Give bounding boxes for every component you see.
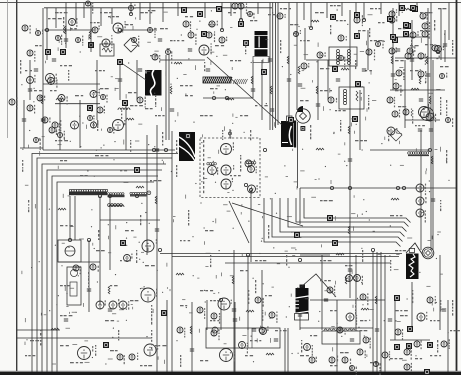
value label T108 (420, 12, 432, 13)
wire W60 (162, 3, 164, 23)
section label square L20 (392, 37, 398, 43)
tube V38 (124, 254, 133, 262)
resistor R117 (419, 76, 421, 84)
value label T211 (430, 320, 440, 321)
wire W14 (277, 3, 279, 126)
value label T212 (450, 330, 460, 331)
value label T173 (415, 125, 425, 126)
section label square L8 (197, 11, 203, 17)
value label T160 (290, 24, 298, 25)
wire diagonal D3 peak (301, 274, 336, 297)
value label T179 (25, 70, 32, 71)
value label (vertical) T59 (434, 20, 435, 30)
value label (vertical) T58 (411, 40, 412, 49)
section label square L34 (103, 342, 109, 348)
tube V83 (410, 31, 419, 38)
capacitor C212 (52, 59, 56, 61)
section label square L37 (327, 215, 333, 221)
terminal node N1 (152, 148, 155, 151)
wire W80 (125, 100, 127, 150)
capacitor C210 (158, 39, 162, 41)
value label (vertical) T19 (412, 110, 413, 124)
resistor R8 (336, 253, 344, 255)
resistor R107 (155, 196, 157, 204)
tube V30 (416, 184, 426, 195)
section label square L19 (405, 23, 411, 29)
value label (vertical) T47 (162, 132, 163, 146)
section label square L30 (394, 295, 400, 301)
wire WH6 (160, 59, 205, 61)
width coil L4 (hatched) (203, 77, 232, 83)
wire W86 (355, 255, 357, 330)
value label T141 (70, 362, 83, 363)
coil L3 (winding bar) (130, 192, 147, 196)
tube V88 (396, 69, 404, 80)
tube V9 (238, 3, 247, 14)
value label (vertical) T17 (446, 150, 447, 163)
value label (vertical) T33 (452, 300, 453, 316)
section label square L36 (406, 343, 412, 349)
value label T156 (208, 24, 216, 25)
tube V228 (88, 115, 95, 126)
value label T217 (110, 350, 118, 351)
value label T222 (415, 358, 422, 359)
value label T199 (110, 285, 118, 286)
tube V216 (337, 327, 346, 335)
tube V60 (346, 313, 357, 325)
capacitor C31 (22, 119, 26, 121)
tube V51 (304, 344, 313, 356)
value label (vertical) T27 (188, 210, 189, 226)
value label T132 (60, 315, 72, 316)
wire W35 (109, 196, 111, 270)
terminal node N15 (135, 194, 138, 197)
terminal node N2 (164, 148, 167, 151)
wire W50 (220, 300, 222, 330)
bus wire BR5 (296, 198, 409, 227)
wire W36 (99, 196, 101, 305)
value label T142 (140, 365, 152, 366)
value label (vertical) T60 (355, 60, 356, 69)
value label T180 (50, 90, 57, 91)
terminal node N17 (87, 238, 90, 241)
coil L2 (winding bar) (107, 193, 124, 198)
terminal node N7 (330, 186, 333, 189)
bus wire BR4 (288, 198, 407, 232)
value label T131 (395, 310, 408, 311)
wire WH8 (370, 149, 430, 151)
flyback transformer T2 middle (255, 36, 268, 48)
capacitor C201 (396, 49, 400, 51)
wire W31 (310, 3, 312, 29)
value label T168 (395, 60, 404, 61)
value label (vertical) T4 (151, 305, 152, 325)
page border left (16, 0, 18, 375)
capacitor C5 (170, 109, 174, 111)
value label (vertical) T18 (440, 200, 441, 211)
waveform blob / coil T6 (406, 248, 419, 279)
tube V22 (354, 15, 363, 26)
resistor R109 (298, 66, 300, 74)
section label square L17 (354, 33, 360, 39)
value label T167 (438, 8, 446, 9)
value label T164 (378, 22, 385, 23)
tube V78 (49, 127, 57, 135)
IF transformer box T8 (329, 47, 357, 66)
resistor R115 (431, 156, 433, 164)
wire diagonal D4 (120, 62, 146, 80)
value label T194 (125, 230, 134, 231)
section label square L42 (134, 167, 140, 173)
capacitor C206 (388, 319, 392, 321)
tube V205 (219, 37, 227, 43)
value label T135 (250, 340, 261, 341)
capacitor C6 (232, 309, 236, 311)
resistor R15 (361, 308, 369, 310)
value label T145 (180, 85, 193, 86)
value label T184 (145, 108, 153, 109)
value label (vertical) T2 (88, 272, 89, 290)
wire W79 (96, 60, 98, 120)
resistor R113 (287, 56, 289, 64)
tube V47 (211, 313, 220, 324)
wire WH23 (300, 254, 330, 256)
value label T209 (360, 320, 367, 321)
wire W29 (221, 3, 223, 31)
transformer T1 winding (solid) (145, 70, 162, 96)
value label T111 (410, 45, 419, 46)
tuner entry wire (229, 129, 232, 138)
flyback cage outline (253, 57, 269, 63)
wire W56 (100, 8, 102, 26)
capacitor C207 (442, 309, 446, 311)
value label (vertical) T56 (340, 120, 341, 131)
tube V84 (422, 22, 430, 32)
resistor R100 (64, 26, 66, 34)
wire W1 (46, 8, 48, 60)
value label (vertical) T21 (330, 25, 331, 34)
value label T170 (425, 44, 433, 45)
resistor R11 (126, 118, 134, 120)
wire W78 (79, 100, 81, 148)
page border left outer (7, 0, 9, 138)
filter choke coil L1 (winding bar) (69, 189, 108, 195)
tube V95 (354, 275, 364, 285)
wire W70 (416, 3, 418, 13)
terminal node N26 (402, 186, 405, 189)
tube V81 (48, 78, 58, 88)
page border right (456, 0, 458, 375)
resistor R6 (174, 62, 182, 64)
capacitor C202 (418, 129, 422, 131)
value label T215 (245, 355, 253, 356)
value label (vertical) T34 (262, 310, 263, 321)
tube V53 (329, 356, 338, 364)
value label T207 (395, 250, 406, 251)
wire WH13 (55, 103, 100, 105)
value label T202 (210, 300, 220, 301)
value label (vertical) T52 (136, 250, 137, 263)
tube V46 (220, 349, 236, 362)
tube V2 (92, 25, 100, 33)
terminal node N6 (225, 96, 228, 99)
tube V65 (328, 97, 337, 103)
value label (vertical) T30 (230, 130, 231, 139)
resistor R105 (429, 96, 431, 104)
tube V29 (366, 49, 375, 60)
value label T176 (365, 70, 372, 71)
value label (vertical) T36 (118, 330, 119, 341)
resistor R7 (316, 148, 324, 150)
tube V17 (245, 160, 255, 167)
tube V210 (376, 40, 384, 48)
wire W85 (336, 300, 338, 372)
tube V45 (218, 298, 232, 310)
value label (vertical) T14 (412, 290, 413, 303)
tube V76 (129, 4, 136, 10)
value label T187 (120, 170, 127, 171)
wire W11 (269, 3, 271, 131)
wire W55 (83, 3, 85, 19)
resistor R3 (51, 328, 59, 330)
power supply section box T9 (206, 327, 280, 348)
value label T102 (140, 12, 152, 13)
wire WH7 (306, 59, 350, 61)
capacitor C203 (336, 79, 340, 81)
capacitor C16 (287, 79, 291, 81)
wire WH15 (100, 219, 160, 221)
value label T165 (398, 28, 405, 29)
wire W37 (74, 196, 76, 240)
tube V79 (113, 120, 126, 131)
value label T158 (250, 20, 257, 21)
tube V230 (58, 131, 65, 139)
page border bottom shade (0, 371, 461, 372)
wire W6 (156, 125, 158, 372)
value label (vertical) T46 (204, 62, 205, 71)
tube V203 (148, 28, 156, 39)
section label square L33 (424, 369, 430, 375)
tube V220 (441, 339, 450, 349)
resistor R2 (404, 8, 412, 10)
wire W89 (439, 255, 441, 330)
capacitor C23 (233, 319, 237, 321)
tube V11 (209, 21, 218, 27)
tube V80 (101, 95, 108, 103)
tube V34 (141, 288, 157, 302)
value label T204 (265, 295, 272, 296)
wire W63 (230, 3, 232, 17)
section label square L41 (161, 310, 167, 316)
tube V66 (58, 95, 68, 105)
value label T171 (440, 66, 449, 67)
value label T213 (310, 335, 317, 336)
wire W44 (252, 60, 254, 98)
tube V92 (419, 107, 432, 118)
tube V36 (109, 299, 119, 309)
tube V55 (357, 349, 366, 358)
tube V48 (211, 329, 220, 340)
bus wire BL5 (52, 176, 158, 372)
value label T140 (25, 355, 35, 356)
ratio detector coil L9 (408, 152, 429, 156)
tube V4 (69, 18, 78, 27)
picture tube anode cap (296, 106, 310, 123)
wire W91 (327, 60, 329, 100)
wire diagonal D1 (207, 57, 282, 125)
tube V25 (422, 31, 430, 39)
IF transformer box T7 (339, 87, 364, 109)
tube V40 (73, 265, 81, 274)
value label T148 (48, 18, 62, 19)
tube V226 (177, 327, 185, 338)
section label square L12 (261, 69, 267, 75)
value label T198 (60, 285, 70, 286)
value label T154 (160, 28, 168, 29)
wire W81 (136, 60, 138, 100)
capacitor C32 (28, 89, 32, 91)
value label T103 (170, 40, 184, 41)
tube V202 (132, 36, 140, 47)
value label T191 (240, 115, 248, 116)
wire W2 (65, 3, 67, 49)
tuner text column (203, 140, 204, 193)
value label T114 (355, 140, 367, 141)
value label (vertical) T12 (355, 300, 356, 315)
tube V28 (405, 51, 414, 59)
bus wire BL6 (57, 182, 154, 372)
value label T110 (370, 40, 382, 41)
value label (vertical) T35 (180, 355, 181, 367)
tube V62 (387, 127, 397, 135)
value label T178 (35, 45, 42, 46)
value label T104 (215, 45, 224, 46)
resistor R18 (56, 98, 64, 100)
value label T161 (315, 12, 324, 13)
tube V71 (97, 106, 105, 113)
page border bottom (0, 372, 461, 375)
section label square L3 (88, 42, 94, 48)
value label (vertical) T5 (151, 330, 152, 349)
value label T181 (75, 95, 83, 96)
value label T125 (60, 225, 73, 226)
resistor R102 (170, 86, 172, 94)
value label T128 (255, 260, 266, 261)
tube V19 (221, 178, 233, 189)
value label (vertical) T37 (95, 345, 96, 356)
tube V77 (91, 121, 99, 128)
wire WH9 (17, 329, 60, 331)
tube V12 (188, 32, 197, 45)
value label (vertical) T3 (40, 330, 41, 345)
value label T122 (230, 175, 241, 176)
terminal node N20 (45, 28, 48, 31)
wire W92 (367, 30, 369, 70)
wire W9 (233, 250, 235, 372)
wire WH20 (20, 147, 43, 149)
voltage divider box (67, 267, 81, 305)
terminal node N25 (436, 50, 439, 53)
tube V90 (393, 83, 402, 96)
filament transformer box T10 (322, 329, 360, 344)
selector dial circle (422, 247, 434, 259)
tube V101 (36, 30, 44, 36)
capacitor C27 (410, 59, 414, 61)
value label T147 (155, 115, 165, 116)
wire W54 (75, 3, 77, 23)
wire W94 (304, 28, 306, 60)
capacitor C25 (391, 74, 395, 76)
capacitor C18 (419, 99, 423, 101)
terminal node N23 (309, 26, 312, 29)
tube V214 (446, 118, 454, 127)
value label (vertical) T39 (60, 120, 61, 131)
value label T206 (345, 265, 352, 266)
resistor R5 (226, 98, 234, 100)
resistor R14 (176, 273, 184, 275)
value label T177 (300, 100, 309, 101)
value label T130 (355, 330, 367, 331)
tube V27 (389, 47, 397, 54)
value label T153 (148, 10, 155, 11)
wire W13 (274, 3, 276, 129)
wire W17 (349, 10, 351, 298)
tube V26 (435, 46, 445, 53)
tube V44 (129, 353, 138, 360)
capacitor C4 (155, 229, 159, 231)
section label square L31 (407, 326, 413, 332)
tube V73 (71, 121, 81, 129)
resistor R120 (345, 276, 347, 284)
value label T105 (280, 8, 291, 9)
value label T186 (80, 175, 88, 176)
value label T137 (340, 352, 349, 353)
value label (vertical) T53 (248, 290, 249, 304)
tube V3 (102, 38, 113, 48)
tube V215 (327, 286, 335, 297)
sound output transformer T4 (281, 116, 296, 148)
value label (vertical) T42 (437, 340, 438, 353)
resistor R4 (136, 186, 144, 188)
wire W64 (257, 3, 259, 15)
wire W28 (166, 300, 168, 372)
wire W47 (427, 8, 429, 120)
capacitor C26 (426, 74, 430, 76)
page border top (0, 2, 461, 4)
value label (vertical) T49 (68, 70, 69, 81)
tube V5 (46, 74, 57, 85)
section label square L18 (387, 16, 393, 22)
value label T127 (200, 290, 213, 291)
wire W88 (411, 282, 413, 330)
capacitor C30 (316, 104, 320, 106)
wire W46 (392, 8, 394, 90)
value label T190 (210, 88, 218, 89)
value label T210 (400, 315, 408, 316)
tube V14 (221, 142, 235, 154)
wire diagonal D2b (232, 203, 303, 226)
tube V229 (34, 138, 41, 151)
flyback transformer T2 lower (255, 37, 268, 57)
section label square L26 (410, 5, 416, 11)
value label T150 (90, 22, 100, 23)
bus wire BR2 (272, 198, 403, 242)
value label T175 (335, 110, 346, 111)
resistor R9 (246, 310, 254, 312)
tube V59 (404, 363, 412, 372)
capacitor C12 (375, 329, 379, 331)
capacitor C205 (350, 339, 354, 341)
